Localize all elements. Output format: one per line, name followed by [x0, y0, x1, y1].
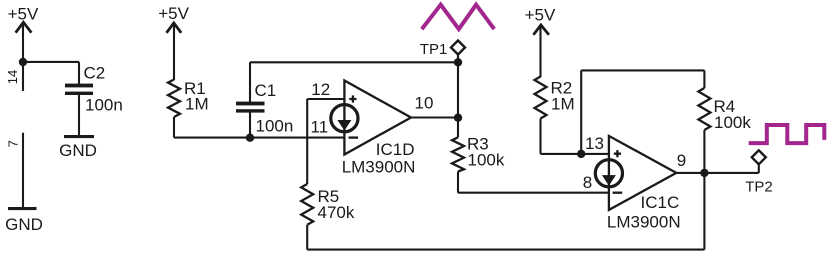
op-amp IC1C: [583, 134, 686, 231]
node line TP1/output/R3: [457, 55, 459, 138]
node dot C1/R1/pin11: [246, 134, 254, 142]
wire C1 top to TP1 node: [250, 61, 458, 63]
resistor R3: [452, 135, 505, 193]
svg-text:LM3900N: LM3900N: [607, 212, 681, 231]
svg-text:10: 10: [415, 94, 434, 113]
op-amp IC1D: [311, 80, 434, 177]
node dot TP1/C1: [454, 58, 462, 66]
svg-text:8: 8: [583, 173, 592, 192]
waveform square (TP2): [749, 125, 825, 143]
resistor R4: [698, 88, 751, 173]
svg-text:+5V: +5V: [525, 5, 556, 24]
node dot pin13: [577, 150, 585, 158]
svg-text:1M: 1M: [551, 95, 575, 114]
resistor R1: [168, 79, 209, 138]
svg-text:470k: 470k: [318, 203, 355, 222]
wire pin13 node up and over to R4: [581, 70, 704, 153]
wire R1/C1 to pin 11: [174, 137, 344, 139]
svg-text:12: 12: [311, 80, 330, 99]
pin 7: [5, 133, 23, 207]
svg-text:100k: 100k: [714, 113, 751, 132]
node dot output/R3: [454, 114, 462, 122]
svg-text:TP1: TP1: [420, 41, 448, 58]
test point TP1: [420, 41, 465, 59]
svg-text:11: 11: [311, 118, 329, 137]
svg-text:LM3900N: LM3900N: [342, 158, 416, 177]
resistor R5: [301, 184, 355, 250]
ground (pin 7): [5, 207, 43, 234]
wire IC1D output: [411, 116, 458, 118]
resistor R2: [535, 77, 575, 154]
svg-text:TP2: TP2: [745, 178, 773, 195]
capacitor C1: [236, 62, 293, 137]
power +5V (right): [525, 5, 556, 77]
power +5V (middle): [158, 4, 189, 80]
svg-text:IC1D: IC1D: [376, 140, 415, 159]
svg-text:C1: C1: [255, 81, 277, 100]
svg-text:13: 13: [585, 134, 604, 153]
pin 14: [5, 62, 23, 91]
svg-text:GND: GND: [5, 215, 43, 234]
svg-text:1M: 1M: [185, 95, 209, 114]
svg-text:14: 14: [5, 70, 20, 84]
svg-text:+5V: +5V: [158, 4, 189, 23]
wire feedback bottom: [307, 173, 704, 250]
svg-text:GND: GND: [59, 141, 97, 160]
svg-text:7: 7: [5, 140, 20, 147]
wire pin 12: [307, 99, 344, 184]
node dot output/R4/feedback: [700, 169, 708, 177]
svg-text:9: 9: [677, 151, 686, 170]
wire R3 to pin 8: [458, 192, 609, 194]
wire +5V to C2: [23, 61, 79, 63]
power +5V (left): [8, 4, 39, 62]
ground (C2): [59, 135, 97, 160]
svg-text:IC1C: IC1C: [641, 193, 680, 212]
wire R2 to pin 13: [541, 153, 609, 155]
svg-text:100n: 100n: [256, 117, 294, 136]
svg-text:C2: C2: [84, 64, 106, 83]
test point TP2: [745, 150, 773, 195]
wire IC1C output: [676, 172, 759, 174]
svg-text:100n: 100n: [85, 96, 123, 115]
waveform triangle (TP1): [422, 5, 494, 29]
capacitor C2: [65, 62, 123, 135]
junction dot +5V/C2: [19, 58, 27, 66]
svg-text:100k: 100k: [468, 151, 505, 170]
